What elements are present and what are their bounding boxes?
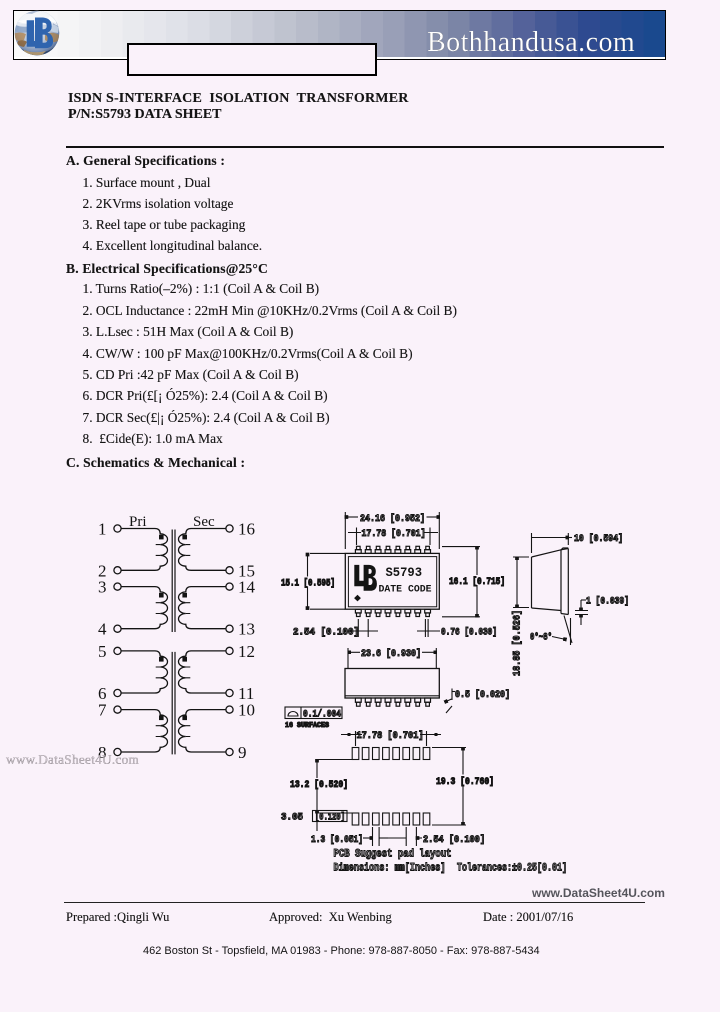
T1 primary polarity dot [159, 535, 164, 540]
svg-text:13.2 [0.520]: 13.2 [0.520] [290, 779, 348, 791]
LB letters [27, 18, 53, 49]
svg-text:DATE CODE: DATE CODE [379, 584, 432, 596]
package marking: LB logo [354, 565, 377, 591]
section B [66, 261, 268, 277]
pin 16 terminal [226, 520, 255, 539]
pcb dimension 19.3 [0.760] [432, 748, 495, 826]
section C [66, 455, 245, 471]
pin 14 terminal [226, 578, 256, 597]
pin 6 terminal [98, 684, 121, 703]
top view: top row gull-wing pins [355, 546, 430, 553]
pin 7 terminal [98, 701, 121, 720]
flatness callout box [285, 707, 342, 721]
dimension 23.6 [0.930] [348, 648, 436, 668]
pcb dimension 3.05 [0.120] [281, 811, 347, 824]
lead angle 0~8 degrees [530, 616, 572, 646]
transformer T4 secondary winding (pins 10-9) [179, 710, 226, 752]
svg-text:0.76 [0.030]: 0.76 [0.030] [441, 627, 497, 639]
top view: package body outline [345, 553, 439, 609]
T4 primary polarity dot [159, 716, 164, 721]
svg-text:3.05: 3.05 [281, 813, 303, 824]
watermark right [532, 886, 665, 900]
svg-text:10 [0.594]: 10 [0.594] [574, 533, 623, 545]
T2 primary polarity dot [159, 593, 164, 598]
svg-text:2.54 [0.100]: 2.54 [0.100] [423, 834, 485, 846]
T3 primary polarity dot [159, 657, 164, 662]
T4 secondary polarity dot [182, 716, 187, 721]
pcb dimension 17.78 [0.701] [341, 730, 441, 746]
transformer T3 primary winding (pins 5-6) [121, 651, 167, 693]
watermark left [6, 752, 139, 768]
pcb layout: bottom pads row [352, 813, 430, 825]
transformer T4 primary winding (pins 7-8) [121, 710, 167, 752]
svg-text:23.6 [0.930]: 23.6 [0.930] [361, 648, 421, 660]
core of T1/T2 (laminated core lines) [172, 530, 175, 633]
pin 1 terminal [98, 520, 121, 539]
package marking: polarity diamond [354, 595, 361, 602]
dimension 0.5 [0.020] [445, 689, 510, 714]
svg-text:15.1 [0.595]: 15.1 [0.595] [281, 578, 335, 590]
pin 10 terminal [226, 701, 255, 720]
transformer T2 secondary winding (pins 14-13) [179, 587, 226, 629]
svg-text:16 SURFACES: 16 SURFACES [285, 722, 329, 730]
svg-text:18.85 [0.526]: 18.85 [0.526] [512, 610, 524, 676]
svg-text:24.16 [0.952]: 24.16 [0.952] [360, 513, 425, 525]
side view height dimension line [513, 557, 529, 608]
pcb layout: top pads row [352, 748, 430, 760]
pin 9 terminal [226, 743, 247, 762]
address [143, 945, 540, 957]
section A [66, 153, 225, 169]
Bothhandusa.com title [427, 29, 635, 57]
pin 5 terminal [98, 642, 121, 661]
dimension 15.1 [0.595] [280, 553, 345, 609]
pin 15 terminal [226, 561, 255, 580]
dimension 2.54 [0.100] [293, 619, 378, 639]
core of T3/T4 (laminated core lines) [172, 652, 175, 755]
svg-text:0.1/.004: 0.1/.004 [303, 709, 341, 721]
header gradient bar [13, 10, 666, 60]
T1 secondary polarity dot [182, 535, 187, 540]
dimension 24.16 [0.952] [345, 512, 439, 549]
T3 secondary polarity dot [182, 657, 187, 662]
pcb dimension 13.2 [0.520] [288, 760, 352, 832]
svg-text:0°~8°: 0°~8° [530, 632, 552, 644]
dimension 17.78 [0.701] [348, 528, 438, 546]
front view: body [345, 669, 439, 699]
dimension 1 [0.039] [575, 596, 629, 626]
svg-text:17.78 [0.701]: 17.78 [0.701] [362, 528, 426, 540]
footer row [66, 910, 169, 925]
transformer T3 secondary winding (pins 12-11) [179, 651, 226, 693]
svg-text:[0.120]: [0.120] [315, 812, 345, 824]
pin 2 terminal [98, 561, 121, 580]
svg-text:PCB Suggest pad layout: PCB Suggest pad layout [334, 849, 452, 861]
white framed box [127, 43, 377, 76]
dimension 16.1 [0.715] [442, 547, 506, 617]
svg-text:16.1 [0.715]: 16.1 [0.715] [449, 576, 505, 588]
svg-text:0.5 [0.020]: 0.5 [0.020] [455, 689, 510, 701]
pin 11 terminal [226, 684, 254, 703]
transformer T2 primary winding (pins 3-4) [121, 587, 167, 629]
front view: pins [355, 698, 430, 706]
dimension 0.76 [0.030] [417, 619, 497, 639]
svg-text:Tolerances:±0.25[0.01]: Tolerances:±0.25[0.01] [457, 863, 567, 875]
svg-text:S5793: S5793 [386, 566, 423, 580]
pin 13 terminal [226, 620, 255, 639]
svg-text:2.54 [0.100]: 2.54 [0.100] [293, 627, 359, 639]
pin 4 terminal [98, 620, 121, 639]
T2 secondary polarity dot [182, 593, 187, 598]
svg-text:17.78 [0.701]: 17.78 [0.701] [357, 730, 424, 742]
side view: body profile [532, 548, 569, 615]
svg-text:1 [0.039]: 1 [0.039] [586, 596, 629, 608]
pin 12 terminal [226, 642, 255, 661]
document titles [68, 91, 409, 107]
transformer T1 primary winding (pins 1-2) [121, 529, 167, 571]
globe logo [14, 10, 61, 56]
pin 3 terminal [98, 578, 121, 597]
svg-text:19.3 [0.760]: 19.3 [0.760] [436, 776, 494, 788]
pcb dimension 1.3 [0.051] [311, 827, 388, 846]
svg-text:Dimensions: mm[Inches]: Dimensions: mm[Inches] [334, 863, 446, 875]
pcb dimension 2.54 [0.100] [388, 827, 485, 846]
footer rule [64, 902, 645, 903]
top view: bottom row gull-wing pins [355, 609, 430, 616]
transformer T1 secondary winding (pins 16-15) [179, 529, 226, 571]
top rule [66, 146, 664, 148]
dimension 10 [0.594] [532, 533, 624, 553]
pin 8 terminal [98, 743, 121, 762]
svg-text:1.3 [0.051]: 1.3 [0.051] [311, 834, 363, 846]
